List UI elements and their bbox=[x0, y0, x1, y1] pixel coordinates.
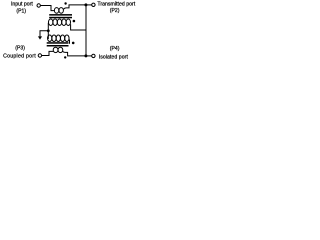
wire: coupled port to T2 primary bbox=[42, 51, 54, 55]
svg-text:(P4): (P4) bbox=[110, 46, 120, 52]
svg-text:(P1): (P1) bbox=[16, 9, 26, 15]
junction node on main line bbox=[84, 3, 87, 6]
svg-text:Transmitted port: Transmitted port bbox=[97, 2, 135, 8]
wire: T1 primary exit to main line bbox=[63, 5, 84, 9]
transformer T1 primary winding (2 loops, main line) bbox=[54, 8, 58, 14]
node: Coupled port terminal P3 bbox=[38, 54, 41, 57]
svg-text:Coupled port: Coupled port bbox=[3, 53, 36, 59]
junction node: ground junction bbox=[47, 29, 50, 32]
ground arrow bbox=[38, 36, 42, 39]
transformer T2 core bars bbox=[47, 42, 69, 44]
node: Input port terminal P1 bbox=[37, 4, 40, 7]
wire: junction to ground arrow bbox=[40, 31, 48, 37]
wire: junction to transmitted port bbox=[86, 4, 92, 6]
node: Isolated port terminal P4 bbox=[92, 54, 95, 57]
phase dot: T1 primary bbox=[64, 2, 66, 4]
wire: T2 secondary right lead stub bbox=[69, 40, 71, 44]
phase dot: T2 primary bbox=[64, 56, 66, 58]
transformer T2 secondary winding (5 loops) bbox=[48, 35, 52, 42]
junction node on isolated line bbox=[84, 54, 87, 57]
transformer T2 primary winding (2 loops, coupled line) bbox=[53, 47, 58, 52]
svg-text:(P2): (P2) bbox=[110, 8, 120, 14]
phase dot: T2 secondary bbox=[72, 42, 75, 45]
wire: T1 secondary left lead down bbox=[47, 23, 49, 39]
wire: long vertical from main line junction down to isolated line bbox=[85, 5, 87, 56]
wire: junction to isolated port bbox=[86, 55, 92, 57]
node: Transmitted port terminal P2 bbox=[92, 3, 95, 6]
wire: T2 primary exit to isolated line bbox=[62, 51, 84, 56]
phase dot: T1 secondary bbox=[73, 20, 76, 23]
svg-text:(P3): (P3) bbox=[15, 45, 25, 51]
wire: input port to T1 primary bbox=[41, 6, 55, 11]
wire: T1 secondary right lead to long vertical bbox=[71, 24, 86, 30]
transformer T1 secondary winding (5 loops) bbox=[49, 19, 53, 26]
svg-text:Input port: Input port bbox=[11, 1, 33, 7]
svg-text:Isolated port: Isolated port bbox=[99, 54, 129, 60]
transformer T1 core bars bbox=[49, 14, 72, 16]
